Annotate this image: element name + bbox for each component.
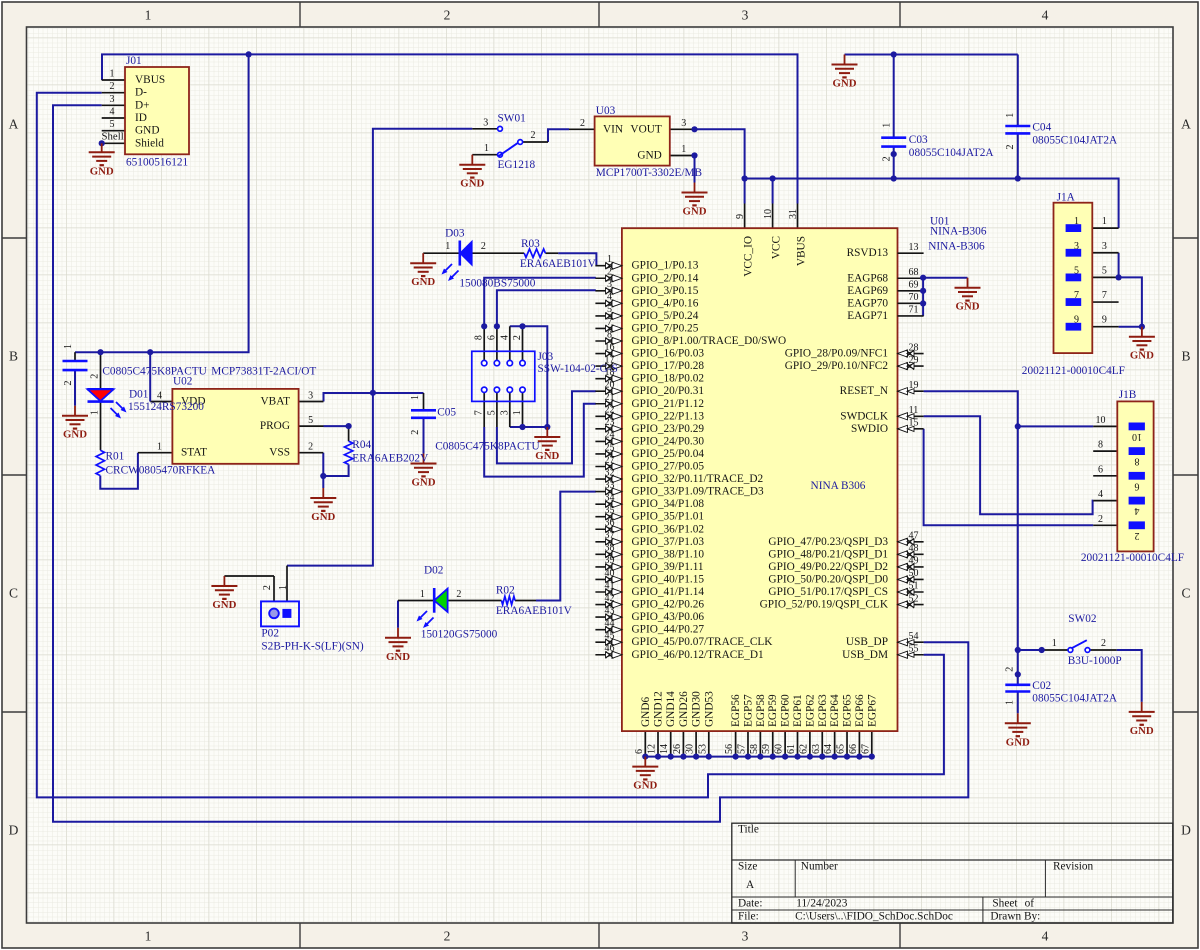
svg-text:GND: GND <box>683 206 707 218</box>
svg-text:1: 1 <box>157 441 162 452</box>
svg-text:GND: GND <box>1130 350 1154 362</box>
svg-text:EGP57: EGP57 <box>742 694 754 727</box>
svg-text:26: 26 <box>672 744 683 754</box>
svg-text:20021121-00010C4LF: 20021121-00010C4LF <box>1081 552 1184 564</box>
svg-text:5: 5 <box>607 304 612 315</box>
svg-text:5: 5 <box>1074 265 1079 276</box>
svg-text:71: 71 <box>909 305 919 316</box>
svg-text:U03: U03 <box>596 105 616 117</box>
svg-text:GPIO_50/P0.20/QSPI_D0: GPIO_50/P0.20/QSPI_D0 <box>768 573 888 585</box>
svg-text:55: 55 <box>909 643 919 654</box>
svg-text:2: 2 <box>1005 145 1016 150</box>
svg-text:of: of <box>1025 898 1035 910</box>
svg-text:23: 23 <box>605 417 615 428</box>
svg-text:B3U-1000P: B3U-1000P <box>1068 655 1122 667</box>
svg-text:GPIO_37/P1.03: GPIO_37/P1.03 <box>632 536 705 548</box>
svg-text:GND: GND <box>311 511 335 523</box>
svg-text:29: 29 <box>909 355 919 366</box>
svg-text:7: 7 <box>1074 290 1079 301</box>
svg-text:EGP65: EGP65 <box>842 694 854 727</box>
svg-text:Revision: Revision <box>1053 861 1094 873</box>
svg-text:3: 3 <box>742 8 749 23</box>
svg-text:3: 3 <box>499 410 510 415</box>
svg-text:16: 16 <box>605 342 615 353</box>
svg-text:2: 2 <box>456 589 461 600</box>
svg-text:2: 2 <box>580 118 585 129</box>
svg-text:ERA6AEB101V: ERA6AEB101V <box>496 605 573 617</box>
svg-text:155124RS73200: 155124RS73200 <box>128 401 204 413</box>
svg-text:1: 1 <box>1052 638 1057 649</box>
svg-text:R01: R01 <box>106 450 125 462</box>
svg-text:J03: J03 <box>538 351 554 363</box>
svg-text:2: 2 <box>531 130 536 141</box>
svg-text:GPIO_49/P0.22/QSPI_D2: GPIO_49/P0.22/QSPI_D2 <box>768 561 888 573</box>
svg-text:40: 40 <box>605 568 615 579</box>
svg-text:3: 3 <box>483 117 488 128</box>
svg-text:GPIO_46/P0.12/TRACE_D1: GPIO_46/P0.12/TRACE_D1 <box>632 649 764 661</box>
svg-text:A: A <box>9 117 19 132</box>
svg-text:6: 6 <box>486 335 497 340</box>
svg-text:R02: R02 <box>496 584 515 596</box>
svg-text:GND14: GND14 <box>665 691 677 727</box>
svg-text:4: 4 <box>1042 929 1049 944</box>
svg-text:MCP1700T-3302E/MB: MCP1700T-3302E/MB <box>596 167 702 179</box>
svg-text:61: 61 <box>786 744 797 754</box>
svg-text:SWDCLK: SWDCLK <box>840 410 889 422</box>
svg-text:8: 8 <box>474 335 485 340</box>
svg-text:1: 1 <box>110 69 115 80</box>
svg-text:J01: J01 <box>126 55 142 67</box>
svg-text:2: 2 <box>89 374 100 379</box>
svg-text:19: 19 <box>909 380 919 391</box>
svg-text:62: 62 <box>798 744 809 754</box>
svg-text:GPIO_51/P0.17/QSPI_CS: GPIO_51/P0.17/QSPI_CS <box>768 586 888 598</box>
svg-text:GPIO_8/P1.00/TRACE_D0/SWO: GPIO_8/P1.00/TRACE_D0/SWO <box>632 335 787 347</box>
svg-text:35: 35 <box>605 505 615 516</box>
svg-text:GND: GND <box>833 78 857 90</box>
svg-text:GND: GND <box>212 599 236 611</box>
svg-text:150120GS75000: 150120GS75000 <box>421 628 498 640</box>
svg-text:GND: GND <box>1006 736 1030 748</box>
svg-text:1: 1 <box>1102 216 1107 227</box>
svg-text:4: 4 <box>157 390 162 401</box>
svg-text:ERA6AEB202V: ERA6AEB202V <box>352 453 429 465</box>
svg-text:3: 3 <box>110 94 115 105</box>
svg-text:3: 3 <box>681 118 686 129</box>
svg-text:12: 12 <box>647 744 658 754</box>
svg-text:EGP58: EGP58 <box>755 694 767 727</box>
svg-text:57: 57 <box>736 744 747 754</box>
svg-text:GND: GND <box>63 429 87 441</box>
svg-text:1: 1 <box>484 143 489 154</box>
svg-text:ID: ID <box>135 112 147 124</box>
svg-text:Sheet: Sheet <box>992 898 1018 910</box>
svg-text:1: 1 <box>445 241 450 252</box>
svg-text:J1B: J1B <box>1119 389 1137 401</box>
svg-text:31: 31 <box>788 209 799 219</box>
svg-text:44: 44 <box>605 618 615 629</box>
svg-text:SWDIO: SWDIO <box>851 423 888 435</box>
svg-text:GPIO_25/P0.04: GPIO_25/P0.04 <box>632 448 705 460</box>
svg-text:GPIO_4/P0.16: GPIO_4/P0.16 <box>632 297 699 309</box>
svg-text:C:\Users\..\FIDO_SchDoc.SchDoc: C:\Users\..\FIDO_SchDoc.SchDoc <box>795 911 953 923</box>
svg-text:VCC: VCC <box>771 236 783 259</box>
svg-text:Title: Title <box>738 823 759 835</box>
svg-text:6: 6 <box>1135 480 1140 491</box>
svg-text:49: 49 <box>909 556 919 567</box>
svg-text:1: 1 <box>410 395 421 400</box>
svg-text:1: 1 <box>1004 700 1015 705</box>
svg-text:48: 48 <box>909 543 919 554</box>
svg-text:EAGP68: EAGP68 <box>847 272 888 284</box>
svg-text:66: 66 <box>848 744 859 754</box>
svg-text:1: 1 <box>881 123 892 128</box>
svg-text:6: 6 <box>634 749 645 754</box>
svg-text:10: 10 <box>1096 415 1106 426</box>
svg-text:D03: D03 <box>445 228 465 240</box>
svg-text:GND: GND <box>90 165 114 177</box>
svg-text:38: 38 <box>605 543 615 554</box>
svg-text:39: 39 <box>605 555 615 566</box>
svg-text:2: 2 <box>444 929 451 944</box>
svg-text:SSW-104-02-G-S: SSW-104-02-G-S <box>538 363 618 375</box>
svg-text:13: 13 <box>909 242 919 253</box>
svg-text:56: 56 <box>724 744 735 754</box>
svg-text:EAGP69: EAGP69 <box>847 285 888 297</box>
svg-text:1: 1 <box>89 410 100 415</box>
svg-text:Number: Number <box>801 861 838 873</box>
svg-text:B: B <box>9 349 18 364</box>
svg-text:9: 9 <box>1074 315 1079 326</box>
svg-text:GPIO_40/P1.15: GPIO_40/P1.15 <box>632 573 705 585</box>
svg-text:VBUS: VBUS <box>135 74 165 86</box>
svg-text:C0805C475K8PACTU: C0805C475K8PACTU <box>435 441 539 453</box>
svg-text:R03: R03 <box>521 238 540 250</box>
svg-text:S2B-PH-K-S(LF)(SN): S2B-PH-K-S(LF)(SN) <box>261 641 364 653</box>
svg-text:GND: GND <box>637 150 661 162</box>
svg-text:EGP63: EGP63 <box>817 694 829 727</box>
svg-text:EGP66: EGP66 <box>854 694 866 727</box>
svg-text:32: 32 <box>605 467 615 478</box>
svg-text:45: 45 <box>605 631 615 642</box>
svg-text:GPIO_43/P0.06: GPIO_43/P0.06 <box>632 611 705 623</box>
svg-text:1: 1 <box>145 929 152 944</box>
svg-text:4: 4 <box>1135 505 1140 516</box>
svg-text:5: 5 <box>486 410 497 415</box>
svg-text:21: 21 <box>605 392 615 403</box>
svg-text:GND: GND <box>460 178 484 190</box>
svg-text:2: 2 <box>481 241 486 252</box>
svg-text:9: 9 <box>735 214 746 219</box>
svg-text:2: 2 <box>63 381 74 386</box>
svg-text:59: 59 <box>761 744 772 754</box>
svg-text:4: 4 <box>607 292 612 303</box>
svg-text:VBAT: VBAT <box>261 396 291 408</box>
svg-text:2: 2 <box>1098 514 1103 525</box>
svg-text:Date:: Date: <box>738 898 762 910</box>
svg-text:4: 4 <box>1098 489 1103 500</box>
svg-text:GND53: GND53 <box>703 691 715 727</box>
svg-text:1: 1 <box>63 344 74 349</box>
svg-text:46: 46 <box>605 643 615 654</box>
svg-text:GND: GND <box>386 651 410 663</box>
svg-text:GND6: GND6 <box>640 697 652 727</box>
svg-text:C05: C05 <box>437 407 456 419</box>
svg-text:43: 43 <box>605 605 615 616</box>
svg-text:File:: File: <box>738 911 759 923</box>
svg-text:11: 11 <box>909 405 919 416</box>
svg-text:R04: R04 <box>352 439 371 451</box>
svg-text:10: 10 <box>1132 431 1142 442</box>
svg-text:GPIO_3/P0.15: GPIO_3/P0.15 <box>632 285 699 297</box>
svg-text:4: 4 <box>1042 8 1049 23</box>
svg-text:1: 1 <box>1005 113 1016 118</box>
svg-text:GND: GND <box>1130 725 1154 737</box>
svg-text:GPIO_39/P1.11: GPIO_39/P1.11 <box>632 561 704 573</box>
svg-text:63: 63 <box>811 744 822 754</box>
svg-text:1: 1 <box>607 254 612 265</box>
svg-text:1: 1 <box>420 589 425 600</box>
svg-text:GND12: GND12 <box>653 691 665 727</box>
svg-text:25: 25 <box>605 442 615 453</box>
svg-text:4: 4 <box>499 335 510 340</box>
svg-text:CRCW0805470RFKEA: CRCW0805470RFKEA <box>106 464 217 476</box>
svg-text:NINA B306: NINA B306 <box>811 480 866 492</box>
svg-text:5: 5 <box>110 119 115 130</box>
svg-text:EGP56: EGP56 <box>730 694 742 727</box>
svg-text:GPIO_42/P0.26: GPIO_42/P0.26 <box>632 599 705 611</box>
svg-text:VOUT: VOUT <box>630 123 661 135</box>
svg-text:2: 2 <box>410 430 421 435</box>
svg-text:ERA6AEB101V: ERA6AEB101V <box>520 258 597 270</box>
svg-text:65: 65 <box>836 744 847 754</box>
svg-text:GND26: GND26 <box>678 691 690 727</box>
svg-text:58: 58 <box>749 744 760 754</box>
svg-text:6: 6 <box>1098 464 1103 475</box>
svg-text:60: 60 <box>774 744 785 754</box>
svg-text:GPIO_7/P0.25: GPIO_7/P0.25 <box>632 322 699 334</box>
svg-text:54: 54 <box>909 631 919 642</box>
svg-text:GPIO_52/P0.19/QSPI_CLK: GPIO_52/P0.19/QSPI_CLK <box>760 599 889 611</box>
svg-text:NINA-B306: NINA-B306 <box>928 241 985 253</box>
svg-text:VSS: VSS <box>269 447 290 459</box>
svg-text:15: 15 <box>909 418 919 429</box>
svg-text:14: 14 <box>659 744 670 754</box>
svg-text:08055C104JAT2A: 08055C104JAT2A <box>909 147 995 159</box>
svg-text:41: 41 <box>605 580 615 591</box>
svg-text:Size: Size <box>738 861 757 873</box>
svg-text:C04: C04 <box>1032 122 1051 134</box>
svg-text:47: 47 <box>909 531 919 542</box>
svg-text:27: 27 <box>605 455 615 466</box>
svg-text:5: 5 <box>308 415 313 426</box>
svg-text:8: 8 <box>1098 440 1103 451</box>
svg-text:42: 42 <box>605 593 615 604</box>
svg-text:C: C <box>1181 586 1190 601</box>
svg-text:GND: GND <box>956 301 980 313</box>
svg-text:C02: C02 <box>1032 680 1051 692</box>
svg-text:20: 20 <box>605 380 615 391</box>
svg-text:GPIO_45/P0.07/TRACE_CLK: GPIO_45/P0.07/TRACE_CLK <box>632 636 774 648</box>
svg-text:GPIO_35/P1.01: GPIO_35/P1.01 <box>632 511 705 523</box>
svg-text:D+: D+ <box>135 99 150 111</box>
svg-text:64: 64 <box>823 744 834 754</box>
svg-text:GPIO_24/P0.30: GPIO_24/P0.30 <box>632 435 705 447</box>
svg-text:7: 7 <box>474 410 485 415</box>
svg-text:69: 69 <box>909 280 919 291</box>
svg-text:GPIO_44/P0.27: GPIO_44/P0.27 <box>632 624 705 636</box>
svg-text:GPIO_27/P0.05: GPIO_27/P0.05 <box>632 461 705 473</box>
svg-text:GND: GND <box>412 477 436 489</box>
svg-text:2: 2 <box>1004 667 1015 672</box>
svg-text:GPIO_33/P1.09/TRACE_D3: GPIO_33/P1.09/TRACE_D3 <box>632 486 764 498</box>
svg-text:NINA-B306: NINA-B306 <box>930 226 987 238</box>
svg-text:B: B <box>1181 349 1190 364</box>
svg-text:11/24/2023: 11/24/2023 <box>796 898 847 910</box>
svg-text:70: 70 <box>909 292 919 303</box>
svg-text:EGP59: EGP59 <box>767 694 779 727</box>
svg-text:GPIO_21/P1.12: GPIO_21/P1.12 <box>632 398 705 410</box>
svg-text:10: 10 <box>763 209 774 219</box>
svg-text:EGP60: EGP60 <box>780 694 792 727</box>
svg-text:J1A: J1A <box>1057 192 1076 204</box>
svg-text:51: 51 <box>909 581 919 592</box>
svg-text:D: D <box>1181 823 1191 838</box>
svg-text:2: 2 <box>1135 530 1140 541</box>
svg-text:VCC_IO: VCC_IO <box>743 236 755 277</box>
svg-text:9: 9 <box>1102 315 1107 326</box>
svg-text:C03: C03 <box>909 134 928 146</box>
svg-text:53: 53 <box>697 744 708 754</box>
svg-text:3: 3 <box>742 929 749 944</box>
svg-text:2: 2 <box>881 156 892 161</box>
svg-text:EGP61: EGP61 <box>792 694 804 727</box>
svg-text:2: 2 <box>1101 638 1106 649</box>
svg-text:3: 3 <box>308 390 313 401</box>
svg-text:D01: D01 <box>129 388 148 400</box>
svg-text:2: 2 <box>607 267 612 278</box>
svg-text:RSVD13: RSVD13 <box>847 247 889 259</box>
svg-text:37: 37 <box>605 530 615 541</box>
svg-text:GPIO_36/P1.02: GPIO_36/P1.02 <box>632 523 705 535</box>
svg-text:08055C104JAT2A: 08055C104JAT2A <box>1032 692 1118 704</box>
svg-text:1: 1 <box>145 8 152 23</box>
svg-text:GPIO_28/P0.09/NFC1: GPIO_28/P0.09/NFC1 <box>785 348 888 360</box>
svg-text:Shell: Shell <box>102 130 124 142</box>
svg-text:GPIO_41/P1.14: GPIO_41/P1.14 <box>632 586 705 598</box>
svg-text:EG1218: EG1218 <box>498 159 536 171</box>
svg-text:VIN: VIN <box>603 123 623 135</box>
svg-text:1: 1 <box>681 144 686 155</box>
svg-text:2: 2 <box>308 441 313 452</box>
svg-text:GPIO_48/P0.21/QSPI_D1: GPIO_48/P0.21/QSPI_D1 <box>768 548 888 560</box>
svg-text:3: 3 <box>1074 241 1079 252</box>
svg-text:STAT: STAT <box>181 447 207 459</box>
svg-text:EGP67: EGP67 <box>866 694 878 727</box>
svg-text:24: 24 <box>605 430 615 441</box>
svg-text:08055C104JAT2A: 08055C104JAT2A <box>1032 135 1118 147</box>
svg-text:2: 2 <box>110 81 115 92</box>
svg-text:4: 4 <box>110 107 115 118</box>
svg-text:GPIO_23/P0.29: GPIO_23/P0.29 <box>632 423 705 435</box>
svg-text:GPIO_18/P0.02: GPIO_18/P0.02 <box>632 373 705 385</box>
svg-text:5: 5 <box>1102 265 1107 276</box>
svg-text:22: 22 <box>605 405 615 416</box>
svg-text:GPIO_16/P0.03: GPIO_16/P0.03 <box>632 348 705 360</box>
svg-text:GPIO_29/P0.10/NFC2: GPIO_29/P0.10/NFC2 <box>785 360 889 372</box>
svg-text:3: 3 <box>607 279 612 290</box>
svg-text:GPIO_47/P0.23/QSPI_D3: GPIO_47/P0.23/QSPI_D3 <box>768 536 888 548</box>
svg-text:1: 1 <box>1074 216 1079 227</box>
svg-text:30: 30 <box>685 744 696 754</box>
svg-text:8: 8 <box>607 329 612 340</box>
svg-text:MCP73831T-2ACI/OT: MCP73831T-2ACI/OT <box>211 365 316 377</box>
svg-text:EGP62: EGP62 <box>804 694 816 727</box>
svg-text:GPIO_20/P0.31: GPIO_20/P0.31 <box>632 385 705 397</box>
svg-text:D02: D02 <box>424 564 444 576</box>
svg-text:52: 52 <box>909 593 919 604</box>
svg-text:EAGP71: EAGP71 <box>847 310 888 322</box>
svg-text:SW02: SW02 <box>1068 613 1097 625</box>
svg-text:GND: GND <box>411 276 435 288</box>
svg-text:GPIO_1/P0.13: GPIO_1/P0.13 <box>632 260 699 272</box>
svg-text:USB_DM: USB_DM <box>842 649 888 661</box>
svg-text:7: 7 <box>607 317 612 328</box>
svg-text:50: 50 <box>909 568 919 579</box>
svg-text:68: 68 <box>909 267 919 278</box>
svg-text:GPIO_38/P1.10: GPIO_38/P1.10 <box>632 548 705 560</box>
svg-text:65100516121: 65100516121 <box>126 156 188 168</box>
svg-text:8: 8 <box>1135 456 1140 467</box>
svg-text:2: 2 <box>444 8 451 23</box>
svg-text:2: 2 <box>262 585 273 590</box>
svg-text:SW01: SW01 <box>498 113 526 125</box>
svg-text:Drawn By:: Drawn By: <box>990 911 1040 923</box>
svg-text:A: A <box>1181 117 1191 132</box>
svg-text:150080BS75000: 150080BS75000 <box>459 277 535 289</box>
svg-text:1: 1 <box>278 585 289 590</box>
svg-text:2: 2 <box>512 335 523 340</box>
svg-text:D: D <box>9 823 19 838</box>
svg-text:GPIO_17/P0.28: GPIO_17/P0.28 <box>632 360 705 372</box>
svg-text:34: 34 <box>605 492 615 503</box>
svg-text:1: 1 <box>512 410 523 415</box>
svg-text:P02: P02 <box>261 627 279 639</box>
svg-text:28: 28 <box>909 342 919 353</box>
svg-text:EAGP70: EAGP70 <box>847 297 888 309</box>
svg-text:GPIO_5/P0.24: GPIO_5/P0.24 <box>632 310 699 322</box>
svg-text:GPIO_22/P1.13: GPIO_22/P1.13 <box>632 410 705 422</box>
svg-text:PROG: PROG <box>260 420 290 432</box>
svg-text:GND30: GND30 <box>691 691 703 727</box>
svg-text:EGP64: EGP64 <box>829 694 841 727</box>
svg-text:GND: GND <box>633 780 657 792</box>
svg-text:67: 67 <box>860 744 871 754</box>
svg-text:33: 33 <box>605 480 615 491</box>
svg-text:7: 7 <box>1102 290 1107 301</box>
svg-text:Shield: Shield <box>135 137 164 149</box>
svg-text:VBUS: VBUS <box>796 236 808 266</box>
svg-text:GND: GND <box>135 125 159 137</box>
svg-text:20021121-00010C4LF: 20021121-00010C4LF <box>1022 365 1125 377</box>
svg-text:GPIO_2/P0.14: GPIO_2/P0.14 <box>632 272 699 284</box>
svg-text:D-: D- <box>135 87 147 99</box>
svg-text:RESET_N: RESET_N <box>840 385 888 397</box>
svg-text:USB_DP: USB_DP <box>846 636 888 648</box>
svg-text:U02: U02 <box>173 376 193 388</box>
svg-text:GPIO_32/P0.11/TRACE_D2: GPIO_32/P0.11/TRACE_D2 <box>632 473 764 485</box>
svg-text:C: C <box>9 586 18 601</box>
